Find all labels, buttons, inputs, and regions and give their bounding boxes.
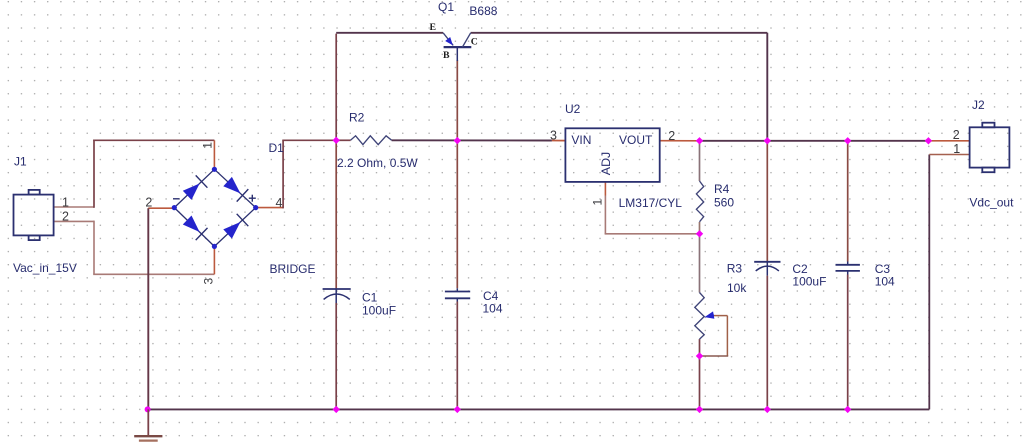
svg-text:2: 2	[953, 128, 960, 142]
wire wiper drop	[726, 316, 728, 356]
junction I	[333, 406, 340, 413]
wire C1 branch lower	[335, 303, 337, 409]
D1 diode left-top	[183, 184, 200, 200]
svg-text:D1: D1	[269, 141, 285, 155]
svg-text:E: E	[430, 22, 437, 33]
junction H	[696, 352, 703, 359]
wire U2 pin2 stub wire	[660, 140, 700, 142]
junction J	[454, 406, 461, 413]
svg-text:VOUT: VOUT	[619, 133, 653, 147]
wire C2 branch lower	[766, 276, 768, 410]
wire J2 pin1 riser x=929	[928, 155, 930, 410]
resistor R2 zigzag	[351, 136, 392, 145]
svg-text:104: 104	[483, 302, 503, 316]
wire wire to R2 junction	[282, 139, 336, 141]
wire C2 branch upper	[766, 141, 768, 262]
wire R3 to rail	[699, 356, 701, 409]
junction A	[333, 137, 340, 144]
wire wiper return	[700, 355, 729, 357]
svg-text:1: 1	[62, 195, 69, 209]
svg-text:Vdc_out: Vdc_out	[969, 196, 1014, 210]
svg-text:VIN: VIN	[571, 133, 591, 147]
bridge plus sign	[249, 197, 256, 199]
svg-text:BRIDGE: BRIDGE	[270, 262, 316, 276]
transistor Q1 base pin	[456, 47, 458, 61]
transistor Q1 collector diagonal	[462, 33, 470, 47]
svg-text:2.2 Ohm, 0.5W: 2.2 Ohm, 0.5W	[337, 156, 418, 170]
wire C3 branch upper	[847, 141, 849, 262]
wire bridge pin2 stub	[148, 207, 174, 209]
wire J1 pin1 to corner	[54, 206, 94, 208]
connector J1 body	[14, 190, 54, 240]
wire ground rail y=409	[147, 408, 929, 410]
transistor Q1 emitter arrow	[445, 37, 453, 45]
wire bridge pin1 stub	[213, 140, 215, 169]
wire emitter riser x=336	[335, 34, 337, 141]
bridge minus sign	[173, 198, 180, 200]
svg-text:104: 104	[875, 275, 895, 289]
wire wiper horizontal	[713, 315, 728, 317]
svg-text:B688: B688	[469, 4, 497, 18]
wire left drop x=94	[93, 221, 95, 275]
svg-text:R2: R2	[349, 111, 365, 125]
wire J1 pin2 to corner	[54, 220, 94, 222]
R3 wiper arrow	[704, 311, 715, 320]
bridge corner nodes	[212, 167, 217, 172]
wire main bus to J2 junction	[700, 140, 929, 142]
svg-text:1: 1	[591, 199, 605, 206]
wire ADJ horizontal	[605, 233, 700, 235]
junction G	[696, 230, 703, 237]
junction K	[696, 406, 703, 413]
wire top-left horizontal y=140	[93, 139, 214, 141]
svg-text:R4: R4	[714, 182, 730, 196]
svg-text:10k: 10k	[727, 281, 747, 295]
wire collector riser x=767	[766, 33, 768, 141]
regulator U2 box	[565, 128, 659, 182]
D1 diode left-bottom	[183, 216, 200, 233]
svg-text:Q1: Q1	[438, 0, 454, 14]
svg-text:C: C	[471, 36, 478, 47]
svg-text:U2: U2	[565, 102, 581, 116]
wire C3 branch lower	[847, 275, 849, 410]
svg-text:J1: J1	[14, 155, 27, 169]
wire J2 pin2 stub	[928, 140, 969, 142]
svg-text:B: B	[443, 50, 450, 61]
wire C1 branch upper	[335, 141, 337, 289]
svg-text:100uF: 100uF	[792, 275, 826, 289]
wire bridge+ riser x=283	[282, 140, 284, 208]
svg-text:1: 1	[201, 142, 215, 149]
svg-text:560: 560	[714, 195, 734, 209]
bridge rectifier D1 diamond edges	[174, 169, 255, 246]
transistor Q1 base bar	[444, 46, 472, 48]
wire R3 bottom lead	[699, 339, 701, 356]
junction F	[925, 137, 932, 144]
D1 diode top-right	[223, 177, 240, 194]
capacitor C4	[445, 291, 470, 293]
svg-text:ADJ: ADJ	[599, 152, 613, 175]
capacitor C3	[836, 264, 860, 266]
wire J2 pin1 wire	[929, 154, 969, 156]
junction M	[844, 406, 851, 413]
svg-text:100uF: 100uF	[362, 304, 396, 318]
wire C4 branch lower	[456, 302, 458, 410]
svg-text:LM317/CYL: LM317/CYL	[619, 196, 683, 210]
svg-text:3: 3	[202, 278, 216, 285]
capacitor C1 (polarized)	[323, 288, 351, 290]
junction L	[764, 406, 771, 413]
wire base/C4 branch x=457 upper	[456, 60, 458, 288]
wire bottom AC horizontal y=274	[93, 273, 214, 275]
junction C	[696, 137, 703, 144]
svg-text:Vac_in_15V: Vac_in_15V	[13, 261, 77, 275]
svg-text:4: 4	[276, 196, 283, 210]
svg-text:R3: R3	[727, 261, 743, 275]
wire R2 left lead	[336, 139, 350, 141]
resistor R4 zigzag	[696, 181, 703, 222]
junction B	[454, 137, 461, 144]
wire top wire left	[336, 32, 443, 34]
junction D	[764, 137, 771, 144]
capacitor C2 (polarized)	[754, 261, 780, 263]
resistor R3 zigzag	[695, 293, 704, 340]
svg-text:2: 2	[668, 129, 675, 143]
wire R3 top lead	[699, 234, 701, 293]
wire bridge pin3 stub	[213, 246, 215, 274]
svg-text:J2: J2	[972, 98, 985, 112]
svg-text:2: 2	[62, 210, 69, 224]
wire bridge pin4 stub	[256, 207, 283, 209]
junction E	[844, 137, 851, 144]
wire top wire right	[471, 32, 768, 34]
wire left riser x=94	[93, 140, 95, 208]
connector J2 body	[970, 123, 1010, 173]
transistor Q1 emitter diagonal	[443, 33, 453, 46]
wire ADJ pin stub	[604, 182, 606, 196]
svg-text:2: 2	[145, 195, 152, 209]
ground node	[145, 406, 151, 412]
wire U2 pin3 stub	[552, 140, 566, 142]
wire R4 bottom lead	[699, 222, 701, 234]
svg-text:3: 3	[550, 129, 557, 143]
wire R4 top lead	[699, 141, 701, 181]
svg-text:1: 1	[953, 142, 960, 156]
wire main bus R2 to U2	[392, 139, 552, 141]
wire ADJ drop	[604, 196, 606, 234]
svg-text:C1: C1	[362, 291, 378, 305]
ground symbol	[147, 409, 149, 436]
D1 diode bottom-right	[223, 222, 240, 239]
wire ground riser x=148	[147, 208, 149, 409]
